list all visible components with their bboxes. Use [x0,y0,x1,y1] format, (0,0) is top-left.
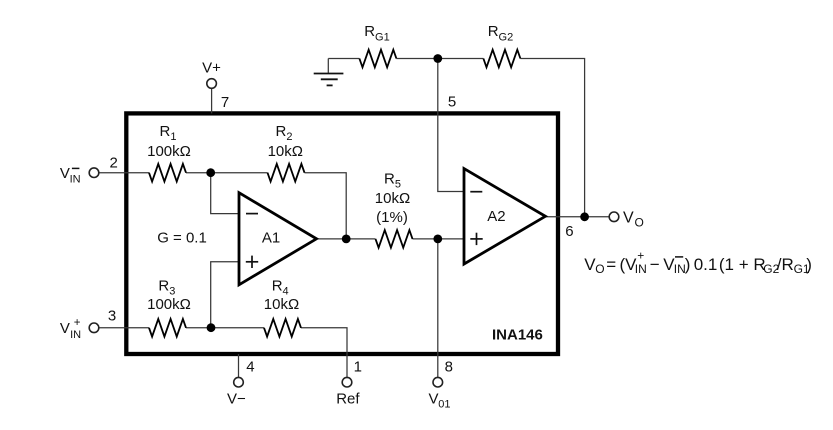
svg-text:RG2: RG2 [488,23,514,44]
svg-text:V: V [623,209,634,226]
svg-text:A2: A2 [487,208,505,225]
svg-text:A1: A1 [262,229,280,246]
svg-text:(1%): (1%) [376,209,408,226]
svg-text:V+: V+ [202,60,221,77]
svg-text:7: 7 [221,94,229,111]
svg-text:=: = [606,255,616,274]
svg-text:/R: /R [777,255,794,274]
svg-text:R1: R1 [160,123,177,143]
svg-text:V: V [60,165,70,182]
svg-text:V−: V− [227,391,246,408]
svg-text:(1 + R: (1 + R [719,255,766,274]
svg-text:01: 01 [438,399,450,411]
svg-text:100kΩ: 100kΩ [147,143,191,160]
svg-text:6: 6 [565,223,573,240]
svg-text:O: O [635,216,644,230]
svg-text:V: V [429,391,439,408]
svg-text:5: 5 [448,94,456,111]
svg-text:0.1: 0.1 [694,255,718,274]
svg-text:+: + [637,249,644,263]
svg-text:): ) [685,255,691,274]
svg-text:10kΩ: 10kΩ [375,190,410,207]
svg-text:+: + [74,317,81,329]
svg-text:IN: IN [635,262,647,276]
svg-text:10kΩ: 10kΩ [268,143,303,160]
svg-text:O: O [595,262,604,276]
svg-text:Ref: Ref [336,391,360,408]
svg-text:IN: IN [70,329,81,341]
svg-text:G = 0.1: G = 0.1 [157,229,207,246]
svg-text:INA146: INA146 [492,326,543,343]
svg-text:3: 3 [108,308,116,325]
svg-text:4: 4 [246,359,254,376]
svg-text:2: 2 [110,154,118,171]
svg-text:R4: R4 [272,277,289,297]
svg-text:R2: R2 [276,123,293,143]
svg-text:R5: R5 [384,171,401,191]
svg-text:IN: IN [70,173,81,185]
svg-text:R3: R3 [158,277,175,297]
svg-text:8: 8 [445,359,453,376]
svg-text:100kΩ: 100kΩ [147,296,191,313]
svg-text:V: V [60,320,70,337]
svg-text:10kΩ: 10kΩ [264,296,299,313]
svg-text:): ) [806,255,812,274]
svg-text:1: 1 [354,359,362,376]
svg-text:−: − [650,255,660,274]
svg-text:RG1: RG1 [364,23,390,44]
